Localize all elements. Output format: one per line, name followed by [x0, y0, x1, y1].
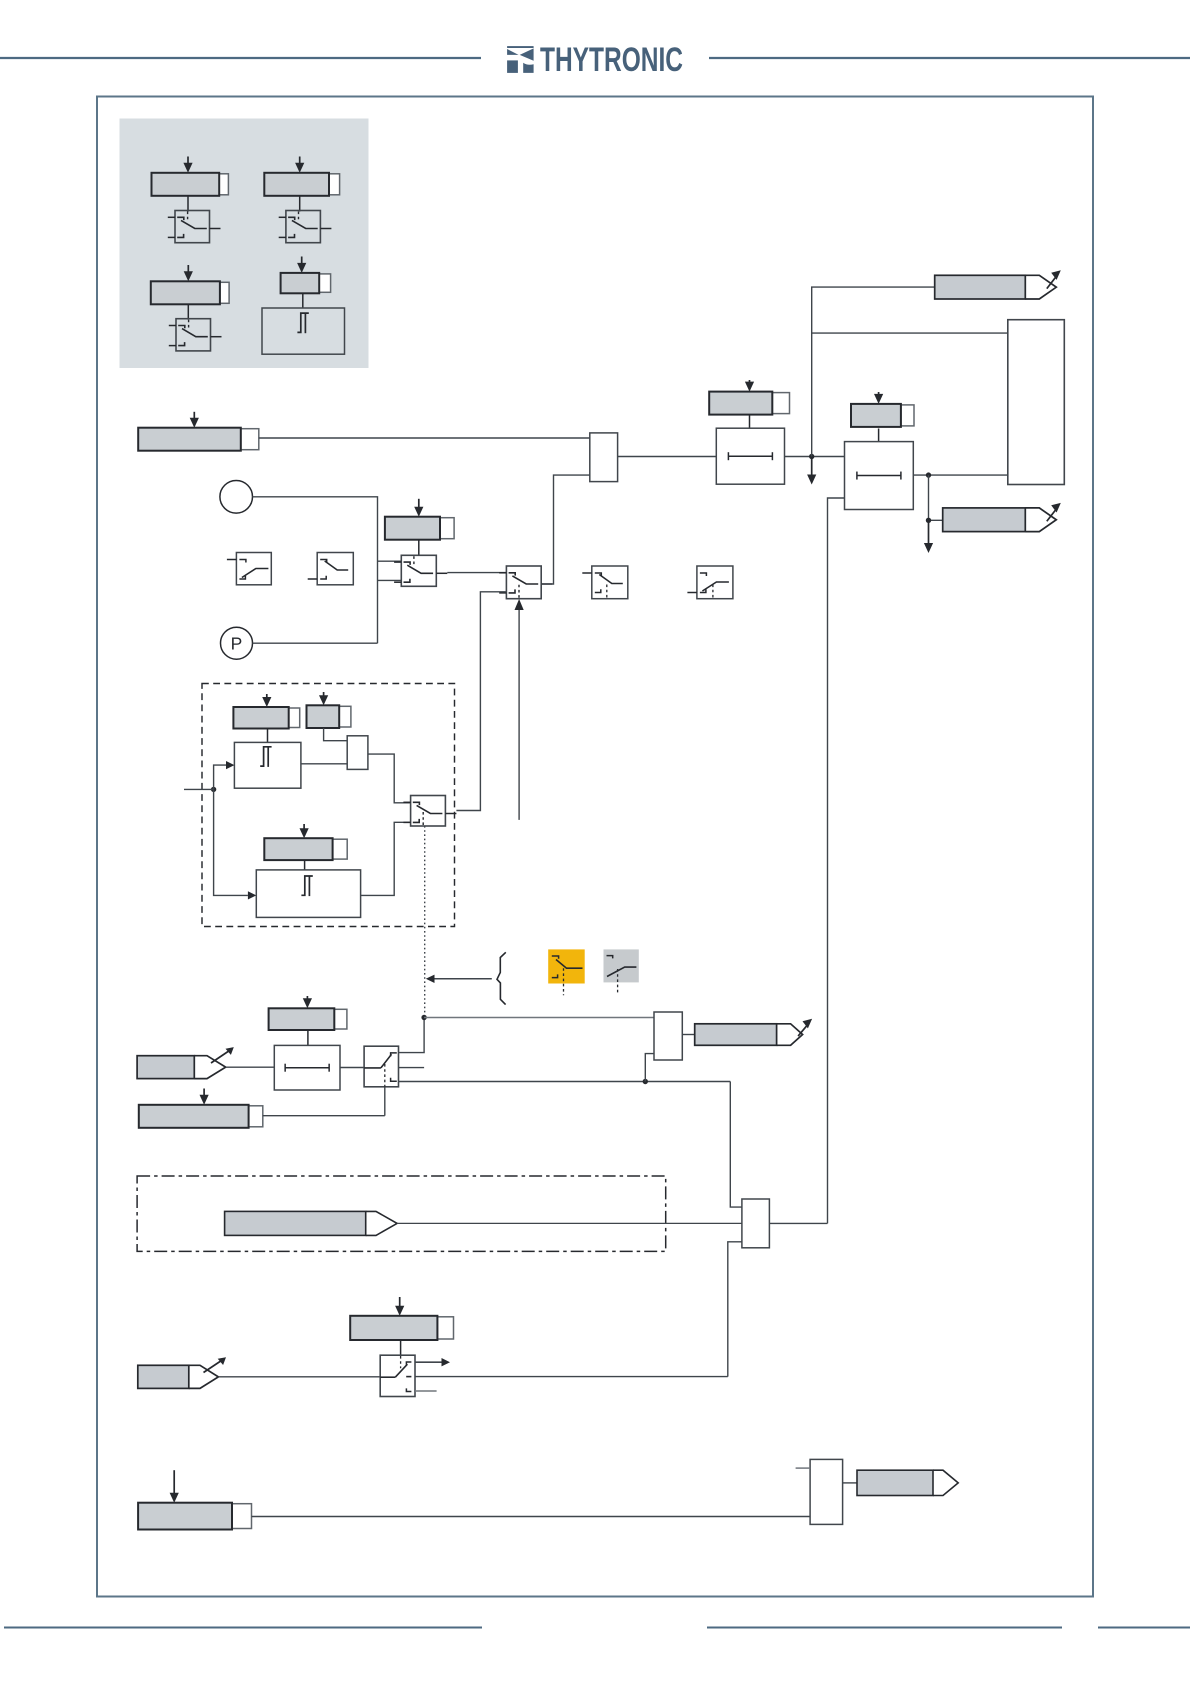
arrow above label IN1 [190, 412, 199, 428]
timer T3 [274, 1045, 340, 1090]
wire C1 to bus [253, 497, 378, 643]
wire SWA stem [418, 540, 420, 555]
svg-text:P: P [231, 634, 243, 654]
svg-text:THYTRONIC: THYTRONIC [540, 41, 683, 79]
wire FI2 to SWE [218, 1376, 380, 1378]
timer T2 [845, 442, 914, 510]
dotted wire SWC down [424, 826, 426, 1018]
gate G1 [590, 433, 618, 482]
legend setting label L1 [152, 173, 229, 196]
setting label T2K [851, 404, 914, 427]
wire T3K stem [307, 1030, 309, 1045]
junction N6 [643, 1079, 648, 1084]
footer rule left [4, 1627, 482, 1629]
wire T2 bottom input [828, 498, 845, 1223]
arrow above label D1 [262, 694, 271, 707]
characteristic box K4 [687, 566, 733, 599]
node N5 [421, 1015, 426, 1020]
wire SWD out [399, 1081, 731, 1083]
annotation arrow [426, 975, 492, 983]
arrow above label T1K [745, 380, 754, 392]
block BK1 [1008, 320, 1065, 485]
wire arrow up into SWB [515, 599, 524, 820]
setting label SWA [385, 517, 454, 540]
wire D2 to gate G2 [324, 728, 348, 741]
dash-dot group box [137, 1176, 666, 1251]
wire P1 to G2 [301, 763, 347, 765]
input flag FI1 [137, 1047, 234, 1079]
pulse glyph P2 [301, 876, 312, 896]
measuring circle C1 [220, 481, 253, 514]
wire bus stub upper [378, 560, 402, 562]
setting label T1K [709, 392, 789, 415]
stub SWD middle [399, 1067, 425, 1069]
gate G2 [347, 736, 368, 770]
wire SWEK stem [400, 1340, 402, 1355]
stub G5 top-left [796, 1467, 811, 1469]
switch SWD [364, 1046, 398, 1087]
footer rule right [1098, 1627, 1190, 1629]
arrow above label IN2 [200, 1089, 209, 1105]
wire G1 to timer T1 [618, 456, 717, 458]
switch SWB [499, 566, 552, 599]
setting label D1 [233, 707, 299, 729]
arrow above label SWA [414, 499, 423, 517]
wire IN2 to SWD [263, 1115, 385, 1117]
legend switch S3 [169, 319, 222, 351]
dashed group box [202, 684, 455, 927]
header rule right [709, 57, 1190, 59]
wire SWC out to SWB [456, 592, 506, 811]
setting label IN1 [138, 428, 259, 451]
legend wire L3-S3 [187, 304, 189, 319]
internal flag F4 [225, 1211, 398, 1235]
wire IN1 to gate G1 [259, 437, 590, 439]
arrow above label D3 [300, 824, 309, 838]
arrow above label IN3 [170, 1470, 179, 1503]
wire G2 to SWC [368, 754, 411, 803]
setting label IN3 [138, 1503, 251, 1530]
pulse box P2 [256, 870, 360, 918]
arrow above label SWEK [395, 1297, 404, 1316]
wire G5 to flag F5 [843, 1482, 857, 1484]
switch SWA [394, 555, 447, 586]
wire SWD up to node N5 [399, 1018, 425, 1053]
brace [497, 952, 506, 1004]
pulse glyph P1 [260, 747, 271, 767]
wire T1 to T2 [785, 456, 845, 458]
wire SWE through [415, 1376, 728, 1378]
wire down to gate G4 [730, 1082, 742, 1208]
legend arrow A3 [184, 265, 193, 281]
setting label SWEK [350, 1316, 453, 1340]
wire T2 out to BK1 [913, 474, 1008, 476]
switch SWE [380, 1355, 415, 1396]
gate G4 [742, 1199, 770, 1248]
legend pulse box B4 [262, 308, 345, 354]
gate G5 [810, 1459, 843, 1524]
alternate characteristic icon (gray) [604, 949, 639, 993]
wire P2 to SWC [361, 822, 411, 895]
wire SWB out to gate G1 [541, 475, 590, 584]
wire T1K stem [749, 415, 751, 428]
wire T2K stem [878, 429, 880, 442]
legend wire L2-S2 [299, 196, 301, 212]
legend pulse glyph [297, 313, 308, 333]
wire D3 stem [304, 860, 306, 870]
wire SWA to SWB [447, 572, 506, 574]
wire N4 down to P2 [214, 789, 257, 899]
legend panel background [120, 119, 369, 369]
node N4 [211, 787, 216, 792]
legend arrow A1 [183, 157, 192, 173]
characteristic box K2 [308, 553, 354, 585]
output flag F2 [943, 503, 1061, 532]
characteristic box K1 [227, 553, 271, 585]
wire N4 up to P1 [214, 761, 235, 789]
legend arrow A2 [295, 157, 304, 173]
setting label IN2 [139, 1105, 263, 1128]
junction N1 [809, 454, 814, 459]
setting label D3 [264, 838, 347, 860]
stub SWE bottom [415, 1390, 437, 1392]
wire N5 to gate G3 [424, 1017, 654, 1019]
legend setting label L4 [281, 273, 331, 293]
page frame [97, 97, 1093, 1597]
output flag F5 [857, 1470, 958, 1495]
characteristic box K3 [582, 566, 628, 599]
legend wire L1-S1 [187, 196, 189, 212]
wire input stub to N4 [184, 788, 214, 790]
pulse box P1 [234, 742, 301, 788]
header rule left [0, 57, 481, 59]
legend setting label L3 [151, 281, 229, 304]
switch SWC [403, 796, 456, 827]
arrow down at N1 [807, 457, 816, 485]
legend setting label L2 [264, 173, 339, 196]
wire G4 out up to T2 [769, 1222, 827, 1224]
wire N1 up to flag F1 [812, 287, 935, 456]
setting label D2 [307, 705, 351, 728]
footer rule middle [707, 1627, 1062, 1629]
wire FI1 to T3 [226, 1066, 275, 1068]
arrow out of SWE [415, 1358, 450, 1366]
circle P [221, 627, 253, 659]
wire bus stub lower [378, 579, 402, 581]
wire D1 stem [267, 729, 269, 743]
input flag FI2 [138, 1357, 226, 1388]
wire branch to block BK1 [812, 332, 1008, 334]
wire F4 to gate G4 [397, 1222, 742, 1224]
wire N2 down to flag F2 [929, 475, 943, 520]
junction N2 [926, 472, 931, 477]
legend switch S1 [168, 211, 221, 243]
gate G3 [654, 1012, 682, 1060]
wire N6 up to G3 [645, 1054, 654, 1082]
legend arrow A4 [297, 257, 306, 273]
arrow above label T3K [303, 996, 312, 1008]
legend wire L4-B4 [302, 293, 304, 308]
junction N3 [926, 518, 931, 523]
timer T1 [716, 428, 784, 484]
arrow above label D2 [319, 692, 328, 705]
wire G4 lower stub down [728, 1242, 742, 1377]
wire T3 to SWD [340, 1067, 364, 1069]
wire G3 to flag F3 [682, 1034, 694, 1036]
arrow above label T2K [874, 392, 883, 404]
output flag F3 [695, 1019, 812, 1046]
arrow down at N3 [924, 520, 933, 553]
logo icon [507, 46, 533, 73]
setting label T3K [269, 1008, 347, 1030]
wire P to bus [253, 642, 378, 644]
output flag F1 [935, 270, 1061, 299]
legend switch S2 [279, 211, 332, 243]
wire SWD below dashed [384, 1087, 386, 1116]
selected characteristic icon (yellow) [548, 949, 585, 995]
wire IN3 to gate G5 [252, 1516, 811, 1518]
